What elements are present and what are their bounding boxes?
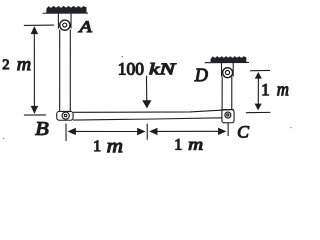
paper noise specks xyxy=(3,56,292,139)
svg-text:1: 1 xyxy=(261,80,270,99)
svg-text:kN: kN xyxy=(149,59,176,78)
bottom dimension ticks xyxy=(66,123,228,141)
svg-text:2: 2 xyxy=(2,57,9,73)
label 1 m (bottom left) xyxy=(93,135,123,157)
label 1 m (right) xyxy=(261,79,289,100)
top wall support (hatched) at A xyxy=(43,6,89,13)
member CD (vertical bar) xyxy=(222,77,232,111)
svg-text:m: m xyxy=(277,79,289,100)
pin A xyxy=(60,20,70,30)
svg-text:100: 100 xyxy=(118,59,144,79)
svg-text:A: A xyxy=(78,17,93,36)
top wall support (hatched) at D xyxy=(205,56,249,62)
bottom dimension 1 m (right span mid to C) xyxy=(149,128,226,136)
svg-text:m: m xyxy=(17,54,31,75)
svg-text:C: C xyxy=(237,122,249,141)
svg-text:1: 1 xyxy=(174,137,182,154)
pin housing at C (right end cap) xyxy=(222,110,234,123)
svg-text:m: m xyxy=(107,135,123,157)
pin C xyxy=(225,112,231,118)
bottom dimension 1 m (left span B to mid) xyxy=(68,128,146,135)
member BC (horizontal bar) xyxy=(73,109,234,120)
left dimension 2 m xyxy=(24,25,54,115)
label 1 m (bottom right) xyxy=(174,135,203,154)
label 2 m xyxy=(2,54,31,75)
clevis bracket at D xyxy=(222,63,234,77)
load arrow 100 kN xyxy=(142,76,151,109)
load label 100 kN xyxy=(118,59,177,79)
svg-text:1: 1 xyxy=(93,138,101,155)
svg-text:B: B xyxy=(35,119,49,140)
svg-text:m: m xyxy=(188,135,203,154)
pin D xyxy=(223,68,233,78)
pin housing at B xyxy=(57,111,73,120)
svg-text:D: D xyxy=(194,65,208,86)
pin B xyxy=(62,112,69,119)
clevis bracket at A xyxy=(58,13,71,28)
right dimension 1 m xyxy=(246,70,271,112)
member AB (vertical bar) xyxy=(60,29,71,112)
